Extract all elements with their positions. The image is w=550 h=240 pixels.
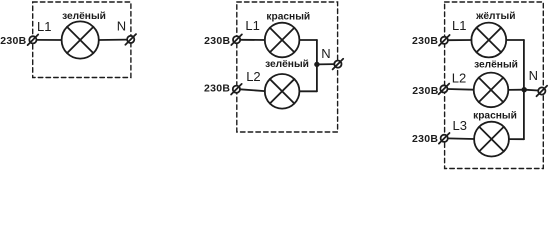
label 230В (circuit 3, input L1) (412, 35, 438, 47)
value label зелёный (circuit 3 lamp HL2) (474, 59, 518, 70)
svg-text:L1: L1 (452, 18, 466, 33)
circuit 2 enclosure (dashed box) (237, 2, 338, 132)
terminal N (circuit 1, neutral) (125, 34, 136, 45)
svg-text:230В: 230В (412, 133, 438, 145)
svg-text:230В: 230В (0, 35, 26, 47)
wire lamp HL2 to bus (circuit 2) (299, 90, 317, 92)
wire L3 terminal to lamp HL3 (circuit 3) (448, 137, 474, 140)
svg-text:красный: красный (266, 11, 310, 22)
neutral bus wire (circuit 3) (523, 40, 525, 139)
lamp HL3 red (circuit 3) (474, 122, 509, 157)
label 230В (circuit 2, input L2) (204, 83, 230, 95)
wire junction to N terminal (circuit 2) (317, 63, 334, 65)
wire lamp HL1 to bus (circuit 2) (299, 39, 317, 41)
terminal X3 (circuit 3, phase L3) (439, 133, 450, 144)
value label зелёный (circuit 2 lamp HL2) (265, 59, 309, 70)
wire lamp HL1 to bus (circuit 3) (506, 39, 524, 41)
value label красный (circuit 2 lamp HL1) (266, 11, 310, 22)
circuit 1 enclosure (dashed box) (33, 2, 131, 78)
terminal X1 (circuit 1, phase L1) (28, 35, 39, 46)
junction node (circuit 3 neutral) (522, 87, 527, 92)
wire L2 terminal to lamp HL2 (circuit 2) (240, 89, 265, 91)
label L3 (circuit 3) (453, 118, 467, 133)
svg-text:зелёный: зелёный (265, 59, 309, 70)
value label зелёный (circuit 1 lamp) (62, 11, 106, 22)
label L1 (circuit 3) (452, 18, 466, 33)
label N (circuit 2) (321, 46, 330, 61)
terminal X2 (circuit 3, phase L2) (439, 84, 450, 95)
label 230В (circuit 2, input L1) (204, 35, 230, 47)
terminal N (circuit 2, neutral) (333, 59, 344, 70)
circuit 3 enclosure (dashed box) (445, 2, 544, 169)
svg-text:красный: красный (473, 111, 517, 122)
svg-text:N: N (321, 46, 330, 61)
label L1 (circuit 2) (245, 18, 259, 33)
label 230В (circuit 1, input L1) (0, 35, 26, 47)
wire lamp to N terminal (circuit 1) (99, 39, 127, 41)
terminal X1 (circuit 3, phase L1) (439, 35, 450, 46)
neutral bus wire (circuit 2) (316, 40, 318, 91)
svg-text:230В: 230В (204, 35, 230, 47)
svg-text:L1: L1 (245, 18, 259, 33)
terminal X1 (circuit 2, phase L1) (231, 34, 242, 45)
svg-text:230В: 230В (412, 85, 438, 97)
junction node (circuit 2 neutral) (314, 62, 319, 67)
svg-text:N: N (529, 68, 538, 83)
terminal N (circuit 3, neutral) (537, 86, 548, 97)
lamp HL1 yellow (circuit 3) (471, 23, 506, 58)
label L2 (circuit 3) (452, 71, 466, 86)
svg-text:L1: L1 (37, 19, 51, 34)
wire lamp HL2 to junction (circuit 3) (508, 89, 524, 91)
value label красный (circuit 3 lamp HL3) (473, 111, 517, 122)
label 230В (circuit 3, input L2) (412, 85, 438, 97)
terminal X2 (circuit 2, phase L2) (231, 84, 242, 95)
svg-text:зелёный: зелёный (474, 59, 518, 70)
wire L1 terminal to lamp (circuit 1) (37, 39, 62, 41)
svg-text:зелёный: зелёный (62, 11, 106, 22)
value label жёлтый (circuit 3 lamp HL1) (475, 11, 515, 22)
wire junction to N terminal (circuit 3) (524, 89, 538, 92)
label N (circuit 3) (529, 68, 538, 83)
label N (circuit 1) (117, 19, 126, 34)
svg-text:230В: 230В (204, 83, 230, 95)
svg-text:L3: L3 (453, 118, 467, 133)
wire L1 terminal to lamp HL1 (circuit 3) (448, 39, 472, 41)
svg-text:жёлтый: жёлтый (475, 11, 515, 22)
lamp HL1 green (circuit 1) (62, 21, 99, 58)
lamp HL2 green (circuit 2) (265, 74, 300, 109)
svg-text:L2: L2 (452, 71, 466, 86)
svg-text:N: N (117, 19, 126, 34)
label L2 (circuit 2) (246, 69, 260, 84)
svg-text:230В: 230В (412, 35, 438, 47)
wire L2 terminal to lamp HL2 (circuit 3) (448, 88, 474, 91)
wire L1 terminal to lamp HL1 (circuit 2) (240, 39, 265, 41)
lamp HL1 red (circuit 2) (265, 23, 300, 58)
lamp HL2 green (circuit 3) (474, 73, 509, 108)
label L1 (circuit 1) (37, 19, 51, 34)
svg-text:L2: L2 (246, 69, 260, 84)
wire lamp HL3 to bus (circuit 3) (509, 138, 524, 140)
label 230В (circuit 3, input L3) (412, 133, 438, 145)
